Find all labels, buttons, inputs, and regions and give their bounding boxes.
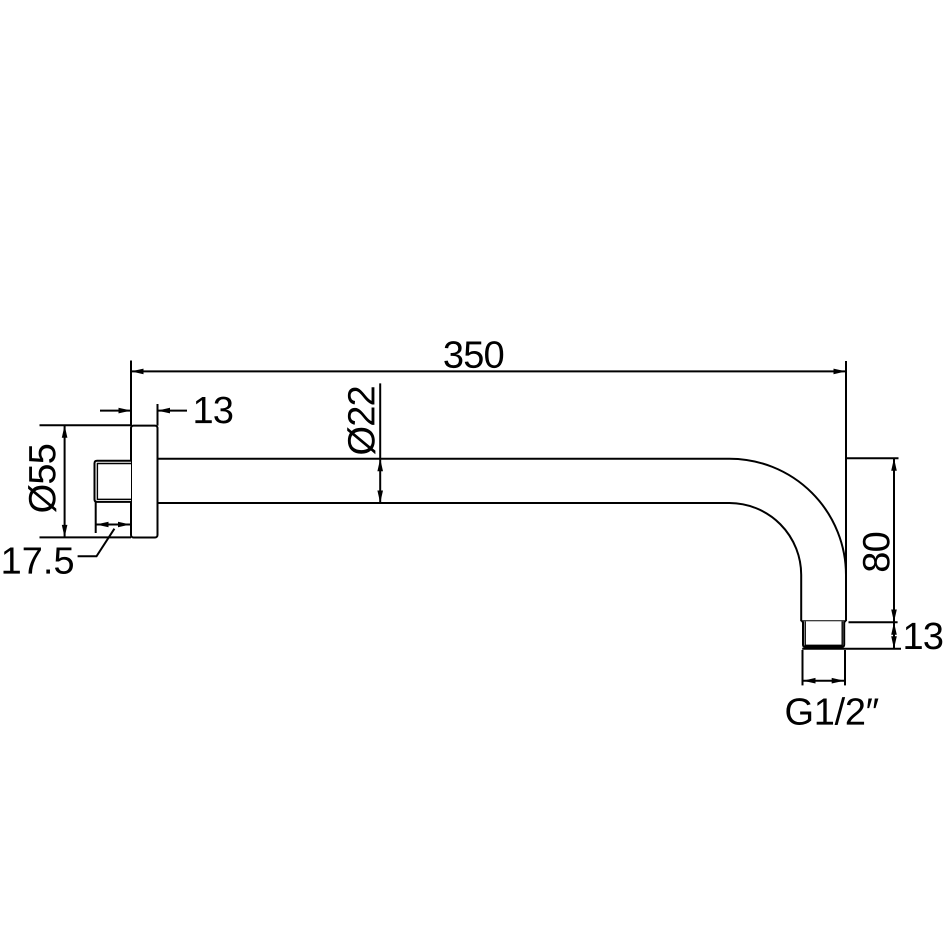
dim 80 extension line top	[846, 457, 899, 459]
dim 80 arrow bottom	[891, 610, 897, 623]
dim D22 label	[347, 387, 375, 454]
dim D22 arrow bottom	[377, 491, 383, 504]
dim 13 outlet extension line top	[849, 621, 898, 623]
dim 350 extension line left	[130, 361, 132, 426]
dim 13 flange line left with arrow	[100, 410, 131, 412]
dim 17.5 leader line	[78, 529, 115, 557]
dim D22 arrow top	[377, 459, 383, 472]
dim 13 outlet label	[905, 622, 942, 649]
dim D55 arrow top	[62, 425, 68, 438]
dim D55 line	[64, 425, 66, 537]
wall-side thread relief lines	[97, 464, 131, 500]
outlet thread body G1/2	[803, 621, 844, 647]
dim 350 arrow left	[131, 369, 144, 375]
outlet thread relief lines	[805, 621, 842, 645]
shower arm tube outline	[158, 459, 847, 622]
dim 13 outlet line	[893, 622, 895, 649]
dim 17.5 label	[3, 547, 72, 574]
dim G1/2 line with arrows	[803, 680, 844, 682]
dim 350 line	[131, 370, 846, 372]
dim 13 outlet arrow bottom	[891, 636, 897, 649]
dim D55 extension line top	[40, 424, 132, 426]
tip thread junction line	[801, 620, 846, 622]
dim 13 flange line right with arrow	[158, 410, 188, 412]
wall-side thread body	[95, 461, 132, 502]
dim D55 arrow bottom	[62, 525, 68, 538]
dim G1/2 label	[786, 697, 878, 725]
dim 17.5 extension line	[95, 502, 97, 533]
dim 13 flange extension line	[157, 404, 159, 426]
dim G1/2 extension line right	[844, 650, 846, 685]
wall flange	[131, 426, 158, 538]
dim 80 arrow top	[891, 458, 897, 471]
dim 80 label	[863, 533, 890, 571]
dim 13 flange label	[195, 397, 232, 424]
dim G1/2 extension line left	[802, 650, 804, 685]
dim 13 outlet arrow top	[891, 622, 897, 635]
dim 17.5 line with arrows	[96, 524, 131, 526]
dim 350 extension line right	[845, 361, 847, 575]
dim 350 arrow right	[834, 369, 847, 375]
dim D55 extension line bottom	[40, 536, 132, 538]
dim D55 label	[28, 445, 56, 512]
dim 350 label	[444, 341, 503, 368]
dim 80 line	[893, 458, 895, 622]
dim 13 outlet extension line bottom	[802, 648, 901, 650]
dim D22 line	[379, 383, 381, 503]
